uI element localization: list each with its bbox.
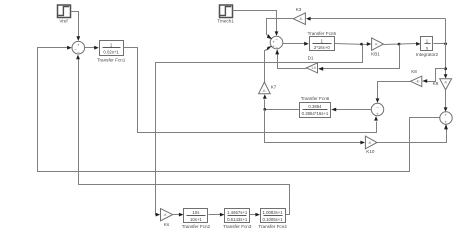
wire Transfer Fcn1 output down and across to left sum bottom — [124, 48, 378, 133]
svg-text:1.6: 1.6 — [311, 66, 316, 70]
wire branch to gain K8 — [422, 69, 445, 83]
svg-text:K9: K9 — [433, 81, 439, 86]
wire K8 output to left sum top — [376, 82, 411, 103]
gain K7 (points up) — [259, 82, 277, 94]
wire Transfer Fcn5 branch down to Ks — [156, 45, 363, 217]
step source Tmech1 — [217, 5, 234, 24]
wire K10 output to right sum bottom — [378, 124, 448, 143]
svg-text:Transfer Fcn1: Transfer Fcn1 — [97, 58, 126, 63]
svg-text:Vref: Vref — [59, 19, 68, 24]
transfer function block Transfer Fcn2 — [182, 209, 211, 230]
gain K10 (points right) — [365, 136, 377, 154]
svg-text:Transfer Fcn3: Transfer Fcn3 — [223, 224, 252, 229]
svg-text:1.4667s+1: 1.4667s+1 — [227, 210, 248, 215]
svg-text:Integrator2: Integrator2 — [416, 52, 439, 57]
svg-text:0.3864: 0.3864 — [308, 104, 322, 109]
svg-text:−: − — [77, 50, 80, 55]
svg-text:s: s — [426, 45, 428, 50]
svg-text:−: − — [275, 37, 278, 42]
gain K3 (points left) — [293, 7, 305, 25]
svg-text:K3: K3 — [296, 7, 302, 12]
gain K8 (points left) — [410, 69, 421, 86]
svg-text:1.0083s+1: 1.0083s+1 — [262, 210, 283, 215]
svg-text:KB1: KB1 — [371, 51, 380, 56]
svg-text:2*16s+0: 2*16s+0 — [314, 45, 330, 50]
svg-text:K7: K7 — [271, 85, 277, 90]
wire K7 output to Sum2 lower-left — [265, 46, 273, 83]
main right vertical wire — [444, 19, 448, 79]
svg-text:10s: 10s — [192, 210, 199, 215]
wire Tmech1 to Sum2 top — [233, 11, 279, 36]
svg-text:0.6143s+1: 0.6143s+1 — [227, 217, 248, 222]
svg-text:Transfer Fcn2: Transfer Fcn2 — [182, 224, 211, 229]
wire Ks to Transfer Fcn2 — [173, 213, 184, 217]
svg-text:D1: D1 — [308, 56, 314, 61]
feedback wire Transfer Fcn4 output to Sum1 bottom input — [76, 55, 289, 215]
wire Sum1 to Transfer Fcn1 — [85, 46, 99, 50]
svg-text:-K-: -K- — [262, 89, 266, 93]
wire D1 output to Sum2 bottom — [275, 49, 306, 68]
svg-text:Tmech1: Tmech1 — [217, 19, 234, 24]
wire Transfer Fcn5 to KB1 with branch junction — [335, 42, 372, 46]
svg-text:Transfer Fcn6: Transfer Fcn6 — [301, 96, 330, 101]
transfer function block Transfer Fcn1 — [97, 41, 126, 63]
transfer function block Transfer Fcn4 — [258, 209, 287, 230]
transfer function block Transfer Fcn6 — [300, 96, 331, 118]
summing junction Sum4 (right) — [440, 112, 452, 125]
wire Sum2 output to Transfer Fcn5 — [283, 42, 309, 46]
svg-text:0.02s+1: 0.02s+1 — [103, 49, 119, 54]
svg-text:0.3864*16s+1: 0.3864*16s+1 — [302, 111, 329, 116]
wire K3 output to Sum2 upper-left — [267, 19, 294, 40]
wire Transfer Fcn2 to Transfer Fcn3 — [209, 213, 225, 217]
svg-text:K10: K10 — [366, 149, 375, 154]
transfer function block Transfer Fcn5 — [308, 31, 337, 51]
svg-text:Transfer Fcn5: Transfer Fcn5 — [308, 31, 337, 36]
svg-text:+: + — [376, 112, 379, 117]
wire KB1 to Integrator2 with branch junction — [384, 42, 421, 46]
svg-text:Transfer Fcn4: Transfer Fcn4 — [258, 224, 287, 229]
svg-text:−: − — [275, 45, 278, 50]
svg-text:K8: K8 — [411, 69, 417, 74]
svg-text:+: + — [445, 113, 448, 118]
summing junction Sum1 — [72, 41, 85, 55]
svg-text:0.1005s+1: 0.1005s+1 — [262, 217, 283, 222]
wire Transfer Fcn3 to Transfer Fcn4 — [250, 213, 261, 217]
gain Ks (points right) — [161, 209, 173, 228]
feedback wire right-sum output to Sum1 left input — [38, 46, 441, 172]
svg-text:+: + — [445, 120, 448, 125]
step source Vref — [58, 5, 71, 24]
svg-text:10s+1: 10s+1 — [190, 217, 202, 222]
wire Transfer Fcn6 output to K7 and branch to K10 — [263, 94, 365, 144]
svg-text:Ks: Ks — [164, 222, 170, 227]
transfer function block Transfer Fcn3 — [223, 209, 252, 230]
integrator block Integrator2 — [416, 37, 439, 58]
gain K9 (points down) — [433, 79, 452, 90]
summing junction Sum2 — [270, 36, 283, 50]
wire K3 input from main right vertical — [306, 17, 446, 21]
wire Integrator2 output to main right vertical — [434, 42, 448, 45]
svg-text:+: + — [77, 43, 80, 48]
wire Vref to Sum1 — [71, 12, 81, 42]
svg-text:-K-: -K- — [299, 17, 303, 21]
wire KB1 branch down to D1 input — [318, 45, 399, 71]
gain D1 (points left) — [306, 56, 317, 73]
summing junction Sum3 (left) — [371, 103, 383, 116]
gain KB1 (points right) — [371, 38, 383, 56]
wire K9 output to right sum top — [444, 90, 448, 112]
svg-text:-K-: -K- — [416, 80, 420, 84]
wire Sum3 output to Transfer Fcn6 — [331, 108, 371, 112]
svg-text:−: − — [376, 104, 379, 109]
